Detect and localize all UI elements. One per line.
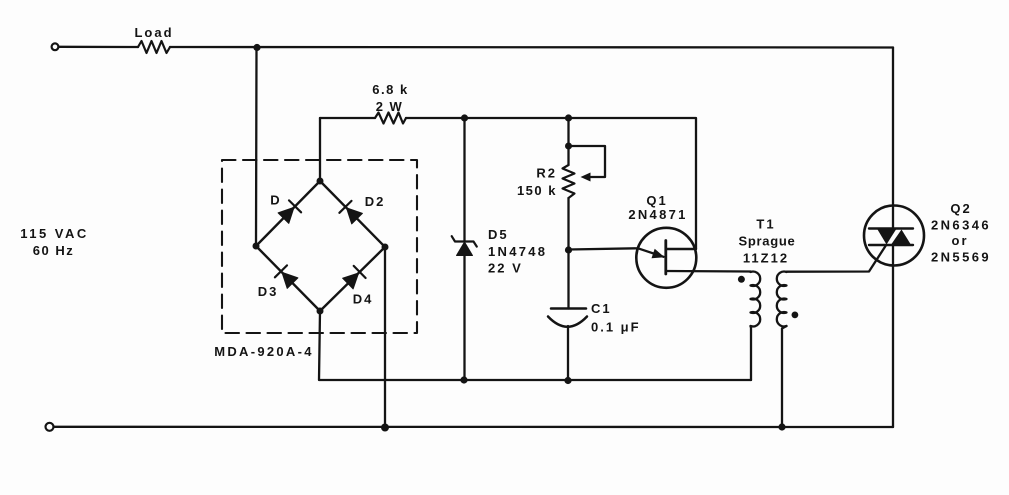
svg-text:Q1: Q1	[646, 193, 667, 208]
wire 6.8k rail right segment to Q1 base-2 corner	[406, 118, 696, 249]
svg-text:0.1 μF: 0.1 μF	[591, 320, 641, 335]
svg-text:C1: C1	[591, 301, 612, 316]
node junction bottom rail / bridge	[381, 424, 389, 432]
wire T1 secondary top to triac gate	[787, 246, 886, 272]
wire top rail left segment	[59, 46, 138, 49]
transformer T1 secondary winding	[777, 272, 787, 327]
svg-text:22 V: 22 V	[488, 261, 523, 276]
Q1 emitter arrowhead	[652, 249, 665, 259]
svg-text:T1: T1	[756, 217, 775, 232]
svg-text:11Z12: 11Z12	[743, 250, 789, 265]
wire bridge right vertex down to bottom rail	[384, 247, 386, 428]
wire D5 branch lower	[463, 256, 465, 381]
svg-text:150 k: 150 k	[517, 183, 557, 198]
wire emitter node down to C1	[567, 250, 569, 309]
svg-text:or: or	[952, 233, 969, 248]
svg-text:Q2: Q2	[950, 201, 971, 216]
wire D5 branch upper	[463, 118, 465, 241]
node junction bottom rail / T1 secondary	[778, 423, 785, 430]
wire bridge top vertex up to 6.8k rail	[319, 118, 321, 181]
bridge module dashed box MDA-920A-4	[222, 160, 417, 333]
svg-text:D4: D4	[353, 292, 374, 307]
node bridge left vertex	[253, 243, 260, 250]
triac Q2 circle	[864, 206, 924, 266]
zener diode D5	[452, 236, 477, 255]
capacitor C1 curved plate	[548, 317, 587, 327]
triac lower bar	[869, 244, 913, 246]
node bridge bottom vertex	[317, 308, 324, 315]
wire bottom rail	[54, 426, 893, 429]
wire C1 bottom lead	[567, 326, 569, 381]
T1 secondary phasing dot	[792, 312, 799, 319]
wire R2 to emitter node	[567, 198, 569, 250]
potentiometer R2 zigzag	[563, 165, 575, 198]
wire triac main vertical upper	[892, 48, 894, 229]
triac left triangle	[878, 230, 897, 245]
svg-text:6.8 k: 6.8 k	[372, 82, 408, 97]
svg-text:MDA-920A-4: MDA-920A-4	[214, 344, 314, 359]
wire emitter horizontal to Q1	[569, 248, 664, 256]
node bridge right vertex	[382, 244, 389, 251]
wire R2 branch top	[567, 118, 569, 165]
resistor Load	[138, 41, 170, 53]
node junction top rail to bridge	[253, 44, 260, 51]
triac right triangle	[892, 230, 911, 245]
R2 wiper arrowhead	[581, 173, 591, 182]
Q1 base bar	[664, 241, 667, 275]
triac upper bar	[869, 227, 913, 229]
wire top rail right segment	[170, 46, 893, 49]
node junction R2 wiper loop	[565, 143, 572, 150]
resistor 6.8 k 2 W	[375, 113, 406, 124]
capacitor C1 top plate	[551, 307, 586, 310]
svg-text:Load: Load	[134, 25, 173, 40]
svg-text:D3: D3	[258, 284, 279, 299]
terminal top-left	[52, 43, 59, 50]
svg-text:1N4748: 1N4748	[488, 244, 547, 259]
wire negative DC rail (bridge bottom to T1)	[319, 311, 751, 380]
node junction 6.8k rail / D5	[461, 114, 468, 121]
wire bridge diamond edges	[256, 181, 385, 311]
wire 6.8k rail left segment	[320, 117, 375, 119]
diode D4 (bridge lower-right)	[343, 266, 366, 289]
transistor Q1 circle	[636, 228, 696, 288]
transformer T1 primary winding	[751, 272, 761, 327]
diode D3 (bridge lower-left)	[275, 265, 298, 288]
svg-text:R2: R2	[536, 166, 557, 181]
svg-text:60 Hz: 60 Hz	[33, 243, 74, 258]
svg-text:2N6346: 2N6346	[931, 218, 991, 233]
Q1 base-2 lead	[666, 248, 696, 250]
wire T1 primary bottom to negative rail	[749, 326, 752, 380]
wire T1 secondary bottom to bottom rail	[782, 326, 787, 427]
svg-text:D5: D5	[488, 227, 509, 242]
wire vertical drop to bridge left vertex	[255, 48, 258, 247]
svg-text:2N5569: 2N5569	[931, 250, 991, 265]
svg-text:2 W: 2 W	[376, 99, 404, 114]
svg-text:D: D	[270, 193, 281, 208]
node junction C1 on negative rail	[564, 377, 571, 384]
node junction emitter branch	[565, 246, 572, 253]
svg-text:2N4871: 2N4871	[628, 207, 687, 222]
diode D2 (bridge upper-right)	[339, 201, 362, 224]
svg-text:D2: D2	[365, 194, 386, 209]
wire triac main vertical lower	[892, 245, 894, 427]
svg-text:Sprague: Sprague	[739, 234, 796, 249]
svg-text:115 VAC: 115 VAC	[20, 226, 89, 241]
diode D (bridge upper-left)	[278, 200, 301, 223]
terminal bottom-left	[46, 423, 54, 431]
T1 primary phasing dot	[738, 276, 745, 283]
wire R2 wiper loop	[569, 146, 606, 177]
node bridge top vertex	[317, 178, 324, 185]
node junction D5 on negative rail	[460, 376, 467, 383]
node junction 6.8k rail / R2	[565, 114, 572, 121]
Q1 base-1 lead to T1 primary	[666, 270, 751, 273]
